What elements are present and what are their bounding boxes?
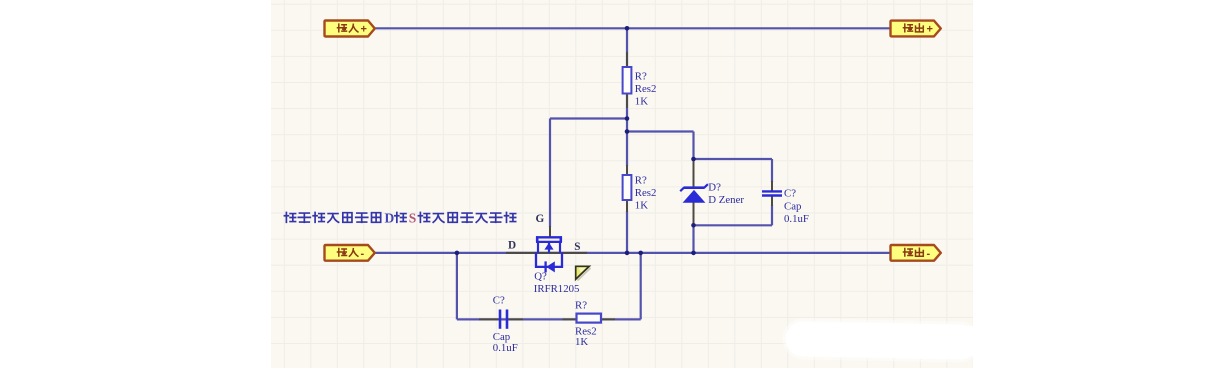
svg-text:Q?: Q? [534, 270, 547, 282]
svg-text:Cap: Cap [784, 200, 801, 212]
svg-text:Res2: Res2 [635, 83, 657, 95]
svg-text:R?: R? [635, 71, 647, 83]
svg-text:IRFR1205: IRFR1205 [534, 283, 580, 295]
svg-text:S: S [409, 210, 417, 225]
svg-text:1K: 1K [635, 199, 648, 211]
svg-text:0.1uF: 0.1uF [784, 213, 809, 225]
svg-text:G: G [536, 213, 545, 225]
svg-text:+: + [927, 24, 933, 36]
svg-text:R?: R? [635, 175, 647, 187]
svg-text:1K: 1K [575, 336, 588, 348]
svg-text:C?: C? [784, 188, 796, 200]
svg-text:D?: D? [708, 182, 721, 194]
svg-text:-: - [927, 248, 931, 260]
svg-text:0.1uF: 0.1uF [493, 342, 518, 354]
svg-text:C?: C? [493, 295, 505, 307]
svg-text:+: + [361, 24, 367, 36]
svg-text:Res2: Res2 [635, 187, 657, 199]
svg-text:D: D [384, 210, 394, 225]
svg-text:-: - [361, 248, 365, 260]
svg-text:R?: R? [575, 300, 587, 312]
svg-text:1K: 1K [635, 95, 648, 107]
svg-text:D: D [508, 240, 516, 252]
svg-text:S: S [574, 241, 580, 253]
svg-text:D Zener: D Zener [708, 194, 744, 206]
